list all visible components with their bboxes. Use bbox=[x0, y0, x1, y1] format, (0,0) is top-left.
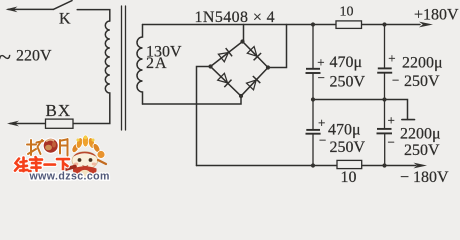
diode D1 (left to top) bbox=[218, 53, 228, 62]
svg-text:+180V: +180V bbox=[414, 7, 459, 24]
wire bridge left vertex to bottom rail bbox=[197, 67, 211, 166]
capacitor C4 2200u lower right: leads and plates bbox=[384, 100, 386, 129]
watermark mascot right hand bbox=[97, 151, 105, 159]
junction dot bridge right bbox=[266, 65, 270, 69]
svg-text:+: + bbox=[317, 55, 324, 70]
terminal 0V bar bbox=[402, 119, 415, 121]
wire AC live lead (top left) bbox=[8, 8, 53, 10]
diode D2 (top to right) bbox=[247, 47, 257, 57]
wire top rail (+) bbox=[143, 24, 421, 26]
diode D4 (bottom to right) bbox=[247, 80, 257, 90]
svg-text:250V: 250V bbox=[404, 73, 440, 90]
arrow +180V output bbox=[419, 22, 433, 28]
arrow -180V output bbox=[414, 163, 428, 169]
junction dot bridge left bbox=[208, 64, 212, 68]
svg-text:BX: BX bbox=[46, 101, 72, 120]
svg-text:1N5408 × 4: 1N5408 × 4 bbox=[195, 9, 276, 26]
svg-text:250V: 250V bbox=[330, 139, 366, 156]
junction dot middle rail C3 bbox=[311, 97, 315, 101]
diode D3 (left to bottom) bbox=[218, 73, 228, 83]
svg-text:+: + bbox=[388, 50, 395, 65]
svg-text:K: K bbox=[59, 11, 71, 28]
svg-text:− 180V: − 180V bbox=[400, 169, 449, 183]
svg-text:2200μ: 2200μ bbox=[400, 126, 441, 143]
svg-text:220V: 220V bbox=[16, 48, 52, 65]
svg-text:10: 10 bbox=[341, 169, 357, 183]
wire fuse left lead bbox=[10, 123, 46, 125]
svg-text:2200μ: 2200μ bbox=[402, 55, 443, 72]
junction dot bottom rail C4 bbox=[382, 163, 386, 167]
junction dot middle rail C4 bbox=[382, 97, 386, 101]
resistor R2 10 ohm bottom bbox=[337, 160, 362, 168]
wire middle rail (0V) bbox=[313, 100, 408, 120]
svg-text:250V: 250V bbox=[404, 142, 440, 159]
transformer T primary winding bbox=[73, 21, 110, 124]
transformer core bbox=[121, 6, 123, 130]
arrow AC bottom left bbox=[7, 121, 19, 127]
wire bottom rail (-) bbox=[197, 165, 417, 167]
watermark mascot body bbox=[73, 166, 97, 177]
arrow AC top left bbox=[6, 7, 18, 13]
wire bridge right vertex to top rail bbox=[268, 25, 287, 68]
watermark char pian (orange) bbox=[60, 139, 68, 156]
watermark text weikuyixia (red) bbox=[15, 157, 69, 172]
svg-text:−: − bbox=[318, 70, 325, 85]
fuse BX body bbox=[46, 119, 74, 128]
watermark mascot left arm bbox=[63, 167, 76, 171]
junction dot top rail C2 bbox=[382, 22, 386, 26]
watermark char zhao (orange) bbox=[27, 140, 44, 155]
background paper bbox=[0, 0, 460, 183]
resistor R1 10 ohm top bbox=[336, 21, 362, 29]
svg-text:2A: 2A bbox=[146, 55, 168, 72]
capacitor C1 470u upper left: leads and plates bbox=[312, 25, 314, 69]
svg-text:250V: 250V bbox=[330, 74, 366, 91]
watermark logo dzsc bbox=[15, 135, 110, 183]
junction dot bridge bottom bbox=[239, 94, 243, 98]
svg-text:10: 10 bbox=[340, 4, 354, 19]
svg-text:470μ: 470μ bbox=[330, 54, 363, 71]
transformer T secondary winding bbox=[137, 25, 143, 105]
svg-text:−: − bbox=[392, 73, 399, 88]
junction dot bottom rail C3 bbox=[311, 163, 315, 167]
svg-text:470μ: 470μ bbox=[328, 122, 361, 139]
watermark red circle badge bbox=[43, 138, 58, 153]
svg-text:www.dzsc.com: www.dzsc.com bbox=[29, 171, 110, 183]
bridge edge wires bbox=[211, 42, 269, 97]
watermark mascot crown bbox=[70, 135, 101, 154]
watermark mascot face bbox=[72, 152, 98, 170]
capacitor C2 2200u upper right: leads and plates bbox=[384, 25, 386, 69]
svg-text:+: + bbox=[318, 115, 325, 130]
svg-text:−: − bbox=[319, 133, 326, 148]
capacitor C3 470u lower left: leads and plates bbox=[312, 100, 314, 130]
svg-text:−: − bbox=[388, 134, 395, 149]
junction dot top rail C1 bbox=[311, 22, 315, 26]
svg-text:~: ~ bbox=[0, 45, 11, 70]
wire secondary bottom to bridge AC2 bbox=[143, 96, 242, 104]
wire bridge top riser bbox=[243, 25, 245, 42]
switch K blade bbox=[53, 1, 72, 10]
junction dot bridge top bbox=[240, 39, 244, 43]
svg-text:+: + bbox=[388, 112, 395, 127]
wire switch to transformer primary top bbox=[77, 10, 110, 21]
